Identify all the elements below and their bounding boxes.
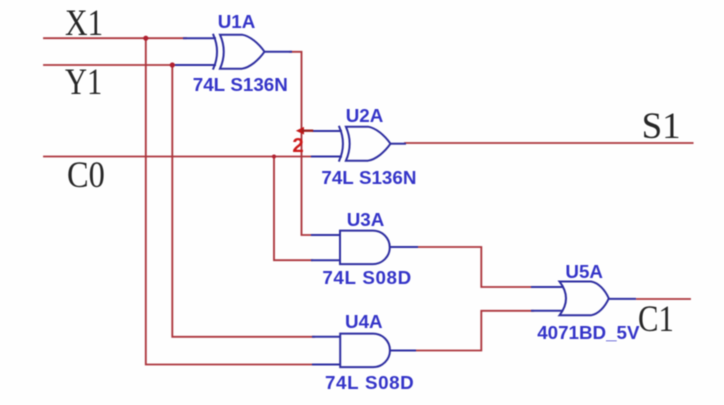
- U5A output pin lead: [610, 298, 635, 300]
- wire Y1 horizontal: [44, 64, 178, 66]
- node C1 label: [638, 301, 674, 338]
- XOR gate U1A input arc: [213, 35, 217, 69]
- gate U5A reference label: [565, 263, 603, 282]
- node C0 label: [67, 157, 105, 194]
- U2A input pin leads: [312, 131, 341, 157]
- gate U4A reference label: [345, 313, 383, 332]
- gate U2A value 74LS136N: [321, 169, 416, 188]
- OR gate U5A input pin leads: [532, 287, 563, 311]
- U2A output pin lead: [392, 143, 405, 145]
- wire C0 branch to U3A bottom input: [274, 157, 312, 261]
- wire S1 from U2A output: [405, 142, 693, 144]
- node X1 label: [65, 5, 103, 42]
- wire U3A output to U5A top input: [416, 247, 533, 287]
- U1A output pin lead: [266, 51, 291, 53]
- junction dot Y1/branch: [170, 62, 175, 67]
- AND gate U3A body: [340, 231, 390, 265]
- gate U5A value 4071BD_5V: [537, 324, 639, 343]
- XOR gate U1A body: [220, 35, 265, 69]
- AND gate U3A input pin leads: [312, 235, 341, 260]
- pin stub at U2A input: [303, 129, 312, 131]
- pin arrow marker at U2A input: [296, 127, 304, 135]
- gate U1A reference label: [218, 13, 256, 32]
- wire U4A output to U5A bottom input: [414, 311, 533, 351]
- U3A output pin lead: [390, 246, 417, 248]
- wire U1A output to U3A top input: [290, 52, 312, 235]
- gate U2A reference label: [346, 107, 384, 126]
- gate U1A value 74LS136N: [193, 76, 288, 95]
- wire C0 horizontal: [44, 156, 312, 158]
- wire C1 from U5A output: [637, 298, 690, 300]
- junction dot X1/branch: [143, 36, 148, 41]
- node S1 label: [642, 108, 681, 145]
- pin number 2 at U2A input: [292, 136, 303, 157]
- XOR gate U2A body: [346, 127, 391, 161]
- AND gate U4A body: [340, 334, 390, 368]
- wire X1 horizontal: [44, 37, 186, 39]
- wire Y1 branch vertical to U4A top input: [172, 65, 314, 337]
- gate U3A value 74LS08D: [322, 269, 411, 288]
- node Y1 label: [65, 64, 102, 101]
- AND gate U4A input pin leads: [313, 337, 341, 365]
- XOR gate U2A input arc: [339, 127, 343, 161]
- U4A output pin lead: [390, 350, 415, 352]
- OR gate U5A body: [560, 282, 609, 316]
- junction dot C0 branch: [272, 155, 276, 159]
- U1A input pin leads: [176, 38, 215, 65]
- gate U4A value 74LS08D: [325, 374, 414, 393]
- wire X1 branch vertical to U4A bottom input: [146, 38, 314, 364]
- gate U3A reference label: [347, 211, 385, 230]
